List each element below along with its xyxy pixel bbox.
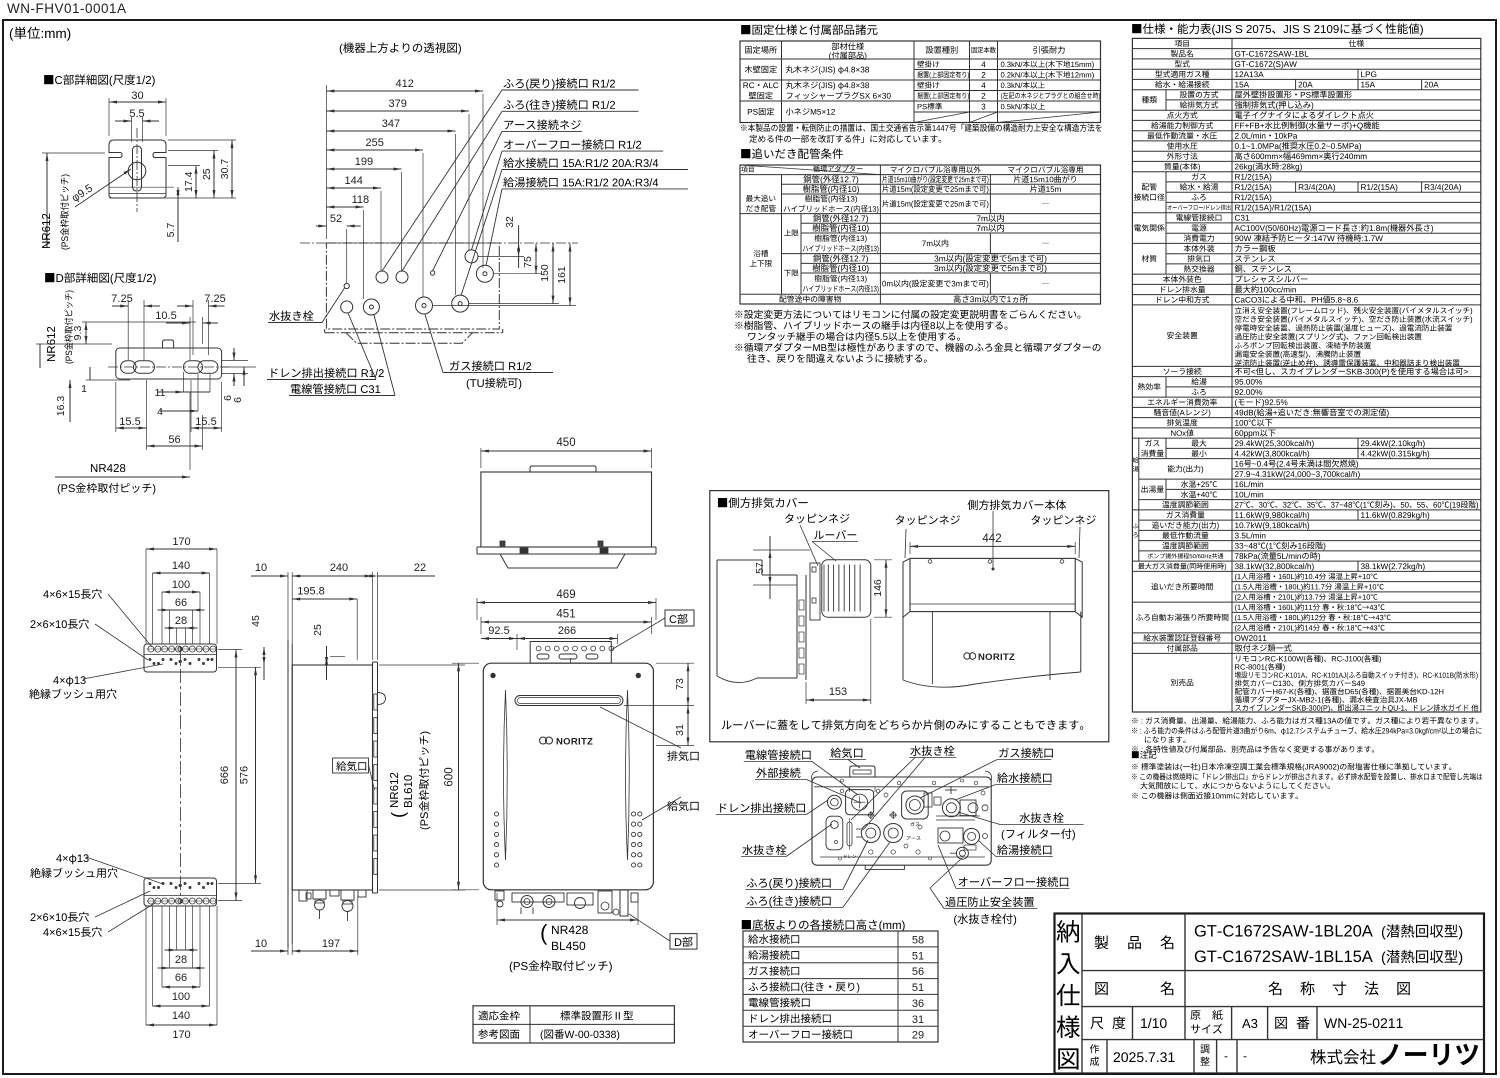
svg-text:240: 240 [330, 562, 348, 574]
svg-text:600: 600 [444, 767, 456, 786]
svg-text:442: 442 [982, 533, 1001, 545]
svg-text:17.4: 17.4 [183, 171, 195, 192]
svg-text:51: 51 [912, 950, 924, 962]
svg-text:31: 31 [674, 724, 686, 736]
svg-text:7.25: 7.25 [111, 293, 132, 305]
svg-text:NORITZ: NORITZ [978, 652, 1015, 663]
svg-text:5.5: 5.5 [129, 108, 144, 120]
svg-text:28: 28 [175, 615, 187, 627]
svg-text:36: 36 [912, 998, 924, 1010]
svg-text:9.3: 9.3 [72, 326, 84, 341]
svg-text:25: 25 [312, 624, 324, 636]
svg-text:30.7: 30.7 [219, 159, 231, 180]
svg-text:10: 10 [255, 938, 267, 950]
svg-text:28: 28 [175, 954, 187, 966]
svg-text:451: 451 [556, 609, 575, 621]
svg-text:58: 58 [912, 935, 924, 947]
svg-text:57: 57 [754, 562, 766, 574]
svg-text:170: 170 [172, 536, 190, 548]
svg-text:140: 140 [172, 560, 190, 572]
svg-text:29: 29 [912, 1030, 924, 1042]
svg-text:255: 255 [366, 137, 384, 149]
svg-text:197: 197 [322, 938, 340, 950]
svg-text:56: 56 [168, 434, 180, 446]
svg-text:150: 150 [539, 264, 551, 282]
svg-text:146: 146 [872, 579, 884, 597]
svg-text:15.5: 15.5 [195, 416, 216, 428]
svg-text:10.5: 10.5 [155, 310, 176, 322]
svg-text:66: 66 [175, 972, 187, 984]
svg-text:153: 153 [829, 686, 847, 698]
svg-text:6: 6 [232, 397, 244, 403]
svg-text:144: 144 [345, 175, 363, 187]
svg-text:140: 140 [172, 1010, 190, 1022]
svg-text:469: 469 [556, 589, 575, 601]
svg-text:52: 52 [330, 213, 342, 225]
svg-text:75: 75 [522, 256, 534, 268]
svg-text:1: 1 [81, 383, 87, 395]
svg-text:30: 30 [131, 90, 143, 102]
svg-text:45: 45 [250, 615, 262, 627]
svg-text:5.7: 5.7 [165, 223, 177, 238]
svg-text:51: 51 [912, 982, 924, 994]
svg-text:170: 170 [172, 1029, 190, 1041]
svg-text:32: 32 [504, 216, 516, 228]
svg-text:NORITZ: NORITZ [556, 737, 593, 748]
svg-text:10: 10 [255, 562, 267, 574]
svg-text:379: 379 [389, 98, 407, 110]
svg-text:161: 161 [556, 266, 568, 284]
svg-text:31: 31 [912, 1014, 924, 1026]
svg-text:25: 25 [201, 168, 213, 180]
svg-text:15.5: 15.5 [119, 416, 140, 428]
svg-text:450: 450 [556, 437, 575, 449]
svg-text:16.3: 16.3 [55, 396, 67, 417]
svg-text:WN-FHV01-0001A: WN-FHV01-0001A [7, 1, 127, 16]
svg-text:22: 22 [414, 562, 426, 574]
svg-text:100: 100 [172, 991, 190, 1003]
svg-text:100: 100 [172, 579, 190, 591]
svg-text:92.5: 92.5 [488, 625, 509, 637]
svg-text:7.25: 7.25 [204, 293, 225, 305]
svg-text:666: 666 [219, 766, 231, 784]
svg-text:199: 199 [355, 156, 373, 168]
svg-text:412: 412 [396, 78, 414, 90]
svg-text:347: 347 [382, 118, 400, 130]
svg-text:266: 266 [558, 625, 576, 637]
svg-text:576: 576 [239, 766, 251, 784]
svg-text:11: 11 [155, 387, 166, 399]
svg-text:195.8: 195.8 [297, 586, 325, 598]
svg-text:66: 66 [175, 597, 187, 609]
svg-text:56: 56 [912, 966, 924, 978]
svg-text:118: 118 [352, 194, 370, 206]
svg-text:73: 73 [674, 678, 686, 690]
svg-text:4: 4 [157, 406, 163, 418]
